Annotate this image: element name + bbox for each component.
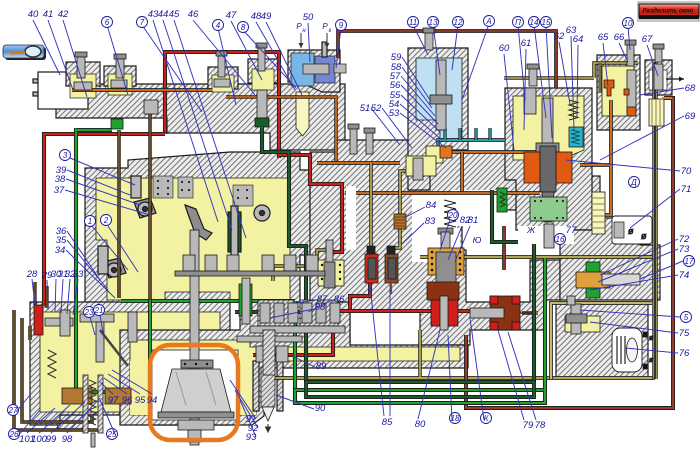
svg-text:14: 14: [530, 18, 539, 27]
round follower: [254, 205, 270, 221]
wire leader: [65, 190, 150, 215]
wire leader: [243, 30, 296, 88]
valve block 65-66: [597, 55, 640, 130]
svg-text:16: 16: [556, 235, 565, 244]
Q spool: [542, 98, 553, 150]
brown entry 1: [33, 282, 36, 305]
wire leader: [625, 348, 678, 353]
wire leader: [47, 280, 48, 310]
cyan spring box: [569, 127, 583, 147]
main body yellow chamber: [96, 178, 290, 300]
label circled 12: [453, 17, 464, 28]
wire leader: [462, 24, 489, 100]
wire: [33, 79, 39, 83]
wire leader: [104, 378, 127, 394]
svg-text:71: 71: [681, 184, 692, 195]
khaki return line: [270, 376, 655, 380]
bolt pad 3: [233, 185, 253, 206]
khaki link from body: [273, 250, 329, 281]
green selector stub: [76, 390, 108, 394]
svg-text:10: 10: [624, 19, 633, 28]
selector gray valves: [45, 318, 73, 326]
wire leader: [590, 275, 678, 290]
wire leader: [67, 279, 70, 314]
red end: [34, 305, 43, 335]
wire leader: [100, 382, 113, 394]
svg-text:46: 46: [188, 9, 199, 20]
small solenoid between valves: [144, 100, 158, 114]
dark green main: [262, 128, 306, 382]
wire leader: [16, 395, 30, 412]
wire leader: [32, 279, 35, 305]
svg-text:76: 76: [679, 348, 690, 359]
svg-text:61: 61: [521, 38, 532, 49]
svg-text:ø: ø: [649, 335, 654, 342]
svg-text:50: 50: [303, 12, 314, 23]
svg-text:44: 44: [158, 9, 169, 20]
valve tower V4 body 47: [248, 59, 278, 83]
svg-text:13: 13: [429, 18, 438, 27]
split window button top-right: [637, 1, 700, 22]
diaphragm unit 76: [612, 328, 642, 372]
right clutch assembly: [490, 296, 520, 330]
accumulator 68 striped: [649, 99, 664, 126]
pump intake channel: [296, 92, 309, 136]
wire leader: [647, 45, 658, 76]
wire leader: [297, 300, 316, 303]
svg-text:4: 4: [216, 21, 221, 30]
wire leader: [231, 21, 262, 80]
khaki top gallery: [504, 63, 638, 78]
green drop: [293, 301, 297, 403]
svg-text:12: 12: [454, 18, 463, 27]
red clutch line lower: [253, 311, 333, 355]
wire leader: [240, 400, 256, 437]
red clutch cylinders: [431, 300, 442, 326]
valve 67 stem: [655, 48, 662, 62]
label circled 3: [60, 150, 71, 161]
wire leader: [524, 49, 526, 130]
svg-text:23: 23: [84, 308, 94, 317]
svg-text:37: 37: [54, 185, 65, 196]
brown loop outer: [14, 310, 100, 430]
wire leader: [90, 317, 95, 335]
wire leader: [235, 390, 258, 428]
green square on train: [111, 119, 123, 129]
brown loop inner: [22, 318, 92, 422]
orange tips 66: [624, 89, 629, 95]
wire leader: [534, 25, 546, 118]
svg-text:3: 3: [63, 151, 68, 160]
wire leader: [308, 23, 310, 62]
wire leader: [370, 285, 384, 416]
oil filter 90: [261, 367, 275, 407]
valve stem V4: [258, 47, 265, 71]
svg-text:1: 1: [88, 217, 92, 226]
brown stub: [28, 326, 32, 340]
modulator valve: [318, 260, 344, 286]
wire leader: [33, 20, 60, 75]
wire leader: [276, 395, 314, 409]
wire leader: [163, 20, 232, 230]
label circled 16: [555, 234, 566, 245]
regulator lower stem: [544, 224, 554, 248]
cyan governor manifold: [436, 138, 505, 142]
wire leader: [413, 25, 428, 55]
label circled 4: [213, 20, 224, 31]
clutch maroon block: [427, 282, 459, 300]
wire leader: [92, 226, 128, 270]
svg-text:62: 62: [554, 31, 565, 42]
selector brown pistons: [62, 388, 92, 404]
svg-text:9: 9: [339, 21, 344, 30]
wire leader: [174, 20, 246, 238]
svg-text:11: 11: [409, 18, 417, 27]
orange connector: [460, 152, 464, 193]
P spools: [436, 60, 446, 130]
check valve row: [183, 255, 195, 271]
main pressure regulator block Q: [505, 88, 592, 230]
breather valve: [426, 146, 443, 163]
orange lower gallery: [345, 191, 540, 195]
main regulator orange body: [524, 152, 540, 183]
svg-text:20: 20: [448, 211, 458, 220]
svg-text:2: 2: [103, 216, 109, 225]
svg-text:93: 93: [246, 432, 257, 443]
red center drop: [279, 155, 342, 252]
small top valve: [567, 296, 575, 305]
regulator green chamber: [530, 197, 567, 221]
label circled 18: [450, 413, 461, 424]
khaki accumulator feed: [369, 163, 373, 250]
label circled П: [513, 17, 524, 28]
khaki frame edge: [654, 62, 656, 379]
wire leader: [270, 309, 314, 318]
maroon supply top: [338, 31, 556, 88]
svg-text:н: н: [302, 28, 306, 34]
svg-text:78: 78: [535, 420, 546, 431]
red main pressure loop: [165, 52, 279, 158]
wire leader: [66, 179, 140, 205]
red accumulator return: [350, 282, 370, 311]
wire leader: [440, 220, 450, 250]
khaki rear frame: [551, 303, 652, 379]
modulator 84: [394, 214, 406, 229]
wire leader: [48, 20, 73, 90]
white pocket below regulator: [518, 226, 574, 244]
governor shaft: [602, 274, 640, 285]
svg-text:53: 53: [389, 108, 400, 119]
cyan drop to P: [436, 140, 439, 152]
svg-text:к: к: [329, 28, 333, 34]
wire leader: [402, 67, 432, 108]
svg-text:33: 33: [73, 269, 84, 280]
wire leader: [108, 226, 138, 272]
wire leader: [402, 57, 430, 100]
wire leader: [518, 25, 525, 100]
svg-text:77: 77: [566, 225, 577, 236]
dark green rear loop: [306, 382, 534, 397]
small spools in train yellow: [74, 82, 92, 90]
svg-text:ø: ø: [641, 231, 647, 241]
wire leader: [67, 170, 130, 195]
svg-text:7: 7: [140, 18, 145, 27]
orange right loop: [580, 100, 611, 215]
bell shaft bottom: [188, 430, 201, 442]
green kickdown elbow: [76, 128, 112, 132]
wire leader: [418, 330, 440, 419]
wire leader: [55, 279, 56, 312]
green-edge valve: [228, 212, 241, 252]
pilot valve pocket: [406, 156, 436, 176]
wire leader: [142, 25, 202, 112]
svg-text:84: 84: [426, 200, 437, 211]
svg-text:86: 86: [334, 294, 345, 305]
valve block 67-68: [645, 60, 672, 95]
wire leader: [63, 20, 87, 97]
label circled 7: [137, 17, 148, 28]
svg-text:15: 15: [542, 18, 551, 27]
svg-text:26: 26: [9, 430, 19, 439]
svg-text:8: 8: [241, 23, 246, 32]
svg-text:Ж: Ж: [526, 225, 536, 235]
pump stem needle: [322, 42, 327, 57]
valve tower V2 body: [104, 66, 136, 86]
svg-text:51: 51: [360, 103, 371, 114]
wire leader: [640, 261, 683, 279]
label circled 11: [408, 17, 419, 28]
valve stem V2: [116, 58, 124, 78]
rotor 34: [103, 258, 126, 278]
wire leader: [559, 42, 570, 104]
main control valve body: [85, 152, 310, 360]
orange T fitting: [440, 146, 452, 158]
label circled К: [481, 413, 492, 424]
label circled 8: [238, 22, 249, 33]
wire leader: [600, 239, 678, 275]
rust return loop: [466, 98, 673, 408]
clutch shaft bar: [237, 336, 302, 342]
shift linkage lever: [185, 205, 212, 240]
clutch pistons row: [260, 303, 270, 323]
svg-text:94: 94: [147, 395, 158, 406]
regulator P stem: [425, 32, 433, 50]
input shaft vertical: [190, 230, 199, 445]
wire leader: [256, 22, 295, 90]
svg-text:87: 87: [317, 294, 328, 305]
wire leader: [470, 318, 484, 420]
wire leader: [18, 410, 40, 436]
brown left vertical: [117, 130, 121, 298]
svg-text:67: 67: [642, 34, 653, 45]
svg-text:66: 66: [614, 32, 625, 43]
svg-text:68: 68: [685, 83, 696, 94]
diaphragm 76 insides: [617, 336, 625, 364]
svg-text:25: 25: [107, 430, 117, 439]
svg-text:34: 34: [55, 245, 66, 256]
dark green cap V4: [255, 118, 269, 127]
label circled 23: [84, 307, 95, 318]
wire leader: [266, 22, 302, 95]
white pocket center: [412, 228, 460, 262]
wire leader: [100, 400, 115, 434]
valve stem V3: [218, 55, 225, 77]
label circled 10: [623, 18, 634, 29]
label circled 13: [428, 17, 439, 28]
red clutch link: [456, 309, 492, 313]
svg-text:Д: Д: [630, 178, 637, 187]
label circled 21: [94, 305, 105, 316]
stem 82: [438, 228, 453, 234]
label circled 5: [681, 312, 692, 323]
wire leader: [230, 380, 256, 419]
khaki valve stub: [599, 63, 602, 93]
black connector caps: [367, 246, 375, 254]
governor rotor 37: [134, 198, 156, 218]
wire leader: [628, 26, 630, 50]
svg-text:17: 17: [685, 257, 694, 266]
svg-text:49: 49: [261, 11, 272, 22]
maroon stub: [390, 283, 392, 294]
svg-text:64: 64: [573, 34, 584, 45]
wire leader: [630, 189, 680, 228]
rear accumulator block: [556, 302, 648, 378]
valve 66 stem: [627, 44, 634, 66]
svg-text:89: 89: [316, 361, 327, 372]
wire leader: [70, 158, 135, 185]
svg-text:90: 90: [315, 403, 326, 414]
label circled 27: [8, 405, 19, 416]
svg-text:5: 5: [684, 313, 689, 322]
wire leader: [61, 279, 63, 313]
filter flank columns: [253, 361, 259, 411]
svg-text:40: 40: [28, 9, 39, 20]
spring 64: [569, 100, 578, 120]
label circled 14: [529, 17, 540, 28]
accumulator maroon: [385, 254, 398, 283]
svg-text:6: 6: [105, 18, 110, 27]
label circled Д: [629, 177, 640, 188]
converter bell cavity: [152, 350, 238, 420]
label circled 9: [336, 20, 347, 31]
svg-text:79: 79: [523, 420, 534, 431]
svg-text:Разделить окно: Разделить окно: [643, 8, 694, 15]
wire leader: [107, 25, 128, 95]
maroon clutch feed: [502, 226, 506, 270]
governor green gears: [586, 262, 600, 274]
wire leader: [590, 322, 678, 333]
green kickdown vertical: [74, 128, 78, 392]
wire leader: [67, 231, 100, 280]
cylinder 71: [612, 216, 652, 244]
label circled 1: [85, 216, 96, 227]
label circled 6: [102, 17, 113, 28]
svg-text:60: 60: [499, 43, 510, 54]
valve train base band: [56, 84, 345, 150]
wire leader: [39, 405, 70, 433]
dark green riser: [492, 190, 534, 382]
orange gallery right: [226, 97, 336, 163]
wire leader: [401, 85, 438, 124]
wire leader: [603, 43, 608, 86]
svg-text:99: 99: [46, 434, 57, 445]
wire leader: [448, 226, 462, 260]
wire leader: [401, 95, 440, 132]
cyan manifold stubs: [445, 128, 490, 140]
wire leader: [546, 25, 552, 138]
wire leader: [27, 408, 55, 433]
wire leader: [455, 226, 470, 262]
outlet arrow 67: [666, 78, 684, 80]
svg-text:83: 83: [425, 216, 436, 227]
wire leader: [448, 335, 452, 420]
brown second vertical: [148, 114, 152, 301]
regulator spring green: [497, 188, 507, 212]
orange link to regulator: [449, 150, 538, 154]
wire leader: [371, 108, 400, 145]
red clutch feed: [333, 309, 433, 313]
valve tower V1 body: [66, 62, 100, 86]
green rear riser: [543, 258, 547, 390]
wire leader: [108, 374, 140, 394]
wire leader: [598, 249, 678, 282]
svg-text:ø: ø: [649, 357, 654, 364]
stems above center mass: [350, 128, 357, 154]
clutch pack left: [258, 300, 294, 326]
right middle mass: [560, 218, 660, 300]
pump housing 50: [288, 50, 340, 92]
wire leader: [498, 330, 524, 420]
svg-text:96: 96: [122, 395, 133, 406]
manual selector block feet: [58, 415, 84, 429]
label circled 2: [101, 215, 112, 226]
wire leader: [382, 108, 412, 148]
selector spring: [48, 350, 56, 378]
orange highlight ring: [150, 345, 238, 440]
khaki line lubrication: [420, 255, 655, 259]
lower piston row: [256, 346, 268, 362]
wire leader: [452, 25, 458, 70]
wire leader: [577, 45, 578, 118]
svg-text:Ю: Ю: [473, 235, 482, 245]
red line to selector: [44, 134, 165, 306]
wire leader: [504, 54, 514, 150]
wire leader: [336, 28, 341, 68]
green governor line: [121, 299, 295, 303]
wire leader: [566, 160, 680, 171]
svg-text:74: 74: [679, 270, 690, 281]
wire leader: [100, 315, 104, 338]
converter bell: [161, 369, 231, 412]
svg-text:85: 85: [382, 417, 393, 428]
converter housing: [120, 302, 468, 425]
wire leader: [600, 116, 684, 160]
khaki drop 1: [418, 330, 422, 377]
green drop to selector: [148, 301, 152, 390]
accumulator red: [365, 254, 378, 283]
clutch drum tan: [428, 248, 464, 275]
svg-text:P: P: [322, 22, 328, 31]
svg-text:52: 52: [371, 103, 382, 114]
wire leader: [433, 25, 440, 75]
khaki modulator line: [389, 171, 416, 254]
valve stem V1: [77, 56, 85, 78]
svg-text:41: 41: [43, 9, 54, 20]
label circled A: [484, 16, 495, 27]
svg-text:42: 42: [58, 9, 69, 20]
wire leader: [218, 28, 236, 105]
orange element 65: [604, 80, 614, 96]
